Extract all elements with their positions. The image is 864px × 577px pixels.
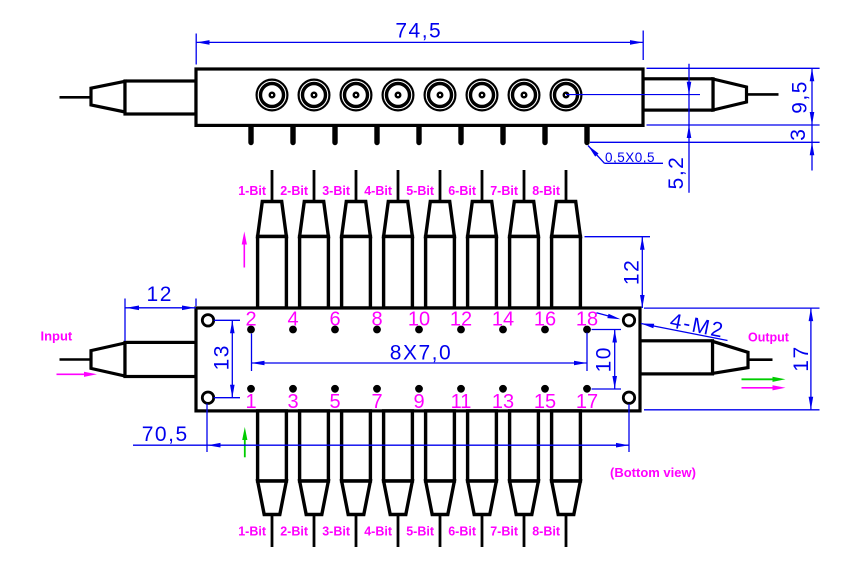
svg-text:16: 16: [534, 309, 556, 331]
svg-text:3: 3: [287, 391, 298, 413]
svg-text:7-Bit: 7-Bit: [490, 525, 519, 539]
svg-text:2: 2: [245, 309, 256, 331]
svg-text:1: 1: [245, 391, 256, 413]
svg-text:13: 13: [211, 344, 234, 370]
svg-text:4-Bit: 4-Bit: [364, 525, 393, 539]
svg-text:5,2: 5,2: [665, 156, 688, 190]
svg-text:17: 17: [790, 345, 813, 371]
svg-text:5-Bit: 5-Bit: [406, 184, 435, 198]
svg-text:12: 12: [450, 309, 472, 331]
svg-text:7: 7: [371, 391, 382, 413]
svg-text:6: 6: [329, 309, 340, 331]
svg-text:6-Bit: 6-Bit: [448, 184, 477, 198]
svg-text:8: 8: [371, 309, 382, 331]
svg-text:Input: Input: [41, 329, 73, 344]
svg-text:9: 9: [413, 391, 424, 413]
svg-text:3-Bit: 3-Bit: [322, 184, 351, 198]
svg-text:9,5: 9,5: [789, 80, 812, 114]
svg-text:7-Bit: 7-Bit: [490, 184, 519, 198]
svg-text:12: 12: [621, 259, 644, 285]
svg-text:4-Bit: 4-Bit: [364, 184, 393, 198]
svg-text:70,5: 70,5: [142, 423, 189, 446]
svg-text:Output: Output: [748, 331, 790, 345]
svg-text:14: 14: [492, 309, 514, 331]
svg-text:0,5X0,5: 0,5X0,5: [605, 150, 655, 165]
svg-text:3: 3: [787, 128, 810, 141]
svg-text:8-Bit: 8-Bit: [532, 525, 561, 539]
svg-text:(Bottom view): (Bottom view): [610, 465, 696, 480]
svg-text:4: 4: [287, 309, 298, 331]
svg-text:12: 12: [147, 283, 173, 306]
svg-text:6-Bit: 6-Bit: [448, 525, 477, 539]
svg-text:1-Bit: 1-Bit: [238, 184, 267, 198]
svg-text:2-Bit: 2-Bit: [280, 184, 309, 198]
svg-text:18: 18: [576, 309, 598, 331]
svg-text:5-Bit: 5-Bit: [406, 525, 435, 539]
svg-text:5: 5: [329, 391, 340, 413]
svg-text:74,5: 74,5: [395, 20, 442, 43]
svg-text:10: 10: [593, 346, 616, 372]
svg-text:2-Bit: 2-Bit: [280, 525, 309, 539]
svg-text:3-Bit: 3-Bit: [322, 525, 351, 539]
svg-text:10: 10: [408, 309, 430, 331]
svg-text:1-Bit: 1-Bit: [238, 525, 267, 539]
svg-text:8-Bit: 8-Bit: [532, 184, 561, 198]
svg-text:8X7,0: 8X7,0: [390, 342, 452, 365]
